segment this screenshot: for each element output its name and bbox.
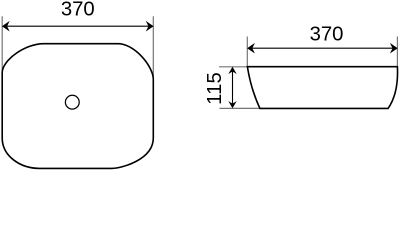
extension line bottom (side view 115) bbox=[220, 107, 261, 109]
extension line top (side view 115) bbox=[219, 66, 248, 68]
drain hole circle bbox=[65, 95, 79, 109]
extension line right (side view 370) bbox=[396, 37, 398, 67]
dimension line (side view 370) bbox=[248, 47, 396, 49]
svg-text:1: 1 bbox=[204, 84, 226, 95]
arrow right (top view 370) bbox=[146, 21, 154, 32]
dimension line (side view 115) bbox=[232, 68, 234, 108]
extension line left (top view 370) bbox=[1, 16, 3, 84]
svg-text:370: 370 bbox=[61, 0, 95, 21]
basin top-view outline bbox=[2, 44, 153, 169]
arrow left (top view 370) bbox=[2, 21, 10, 32]
basin side-view outline bbox=[247, 67, 397, 109]
arrow left (side view 370) bbox=[247, 43, 255, 54]
svg-text:370: 370 bbox=[310, 23, 344, 45]
arrow up (side view 115) bbox=[228, 67, 236, 74]
dimension line (top view 370) bbox=[3, 25, 153, 27]
svg-text:5: 5 bbox=[204, 72, 226, 83]
label 115 (side view, rotated) bbox=[204, 72, 226, 105]
arrow down (side view 115) bbox=[228, 101, 236, 108]
arrow right (side view 370) bbox=[390, 43, 398, 54]
extension line left (side view 370) bbox=[246, 37, 248, 67]
extension line right (top view 370) bbox=[152, 16, 154, 84]
